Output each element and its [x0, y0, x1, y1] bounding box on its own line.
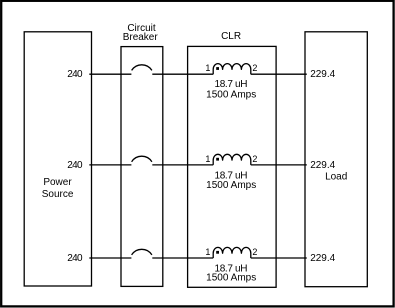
wire: source to breaker gap (phase C)	[89, 257, 131, 259]
svg-text:229.4: 229.4	[310, 160, 335, 171]
svg-text:Power: Power	[43, 177, 72, 188]
wire: source to breaker gap (phase A)	[89, 73, 131, 75]
label: Power Source	[42, 177, 74, 200]
polarity dot L-A	[216, 67, 219, 70]
label: Circuit Breaker	[123, 23, 159, 43]
svg-text:240: 240	[67, 160, 83, 171]
svg-text:1500 Amps: 1500 Amps	[206, 180, 256, 191]
circuit breaker box	[121, 47, 163, 287]
svg-text:1: 1	[205, 247, 210, 257]
power source box	[24, 32, 91, 286]
wire: source to breaker gap (phase B)	[89, 164, 131, 166]
wire: inductor to load (phase C)	[251, 257, 307, 259]
breaker contact arc CB-A	[132, 65, 152, 71]
svg-text:229.4: 229.4	[310, 69, 335, 80]
wire: inductor to load (phase B)	[251, 164, 307, 166]
svg-text:2: 2	[252, 63, 257, 73]
breaker contact arc CB-C	[132, 249, 152, 255]
svg-text:240: 240	[67, 253, 83, 264]
svg-text:Load: Load	[325, 172, 347, 183]
svg-text:2: 2	[252, 154, 257, 164]
inductor coil L-C	[213, 247, 251, 258]
svg-text:Source: Source	[42, 189, 74, 200]
svg-text:2: 2	[252, 247, 257, 257]
svg-text:229.4: 229.4	[310, 253, 335, 264]
svg-text:240: 240	[67, 69, 83, 80]
svg-text:CLR: CLR	[221, 31, 241, 42]
inductor coil L-B	[213, 154, 251, 165]
wire: breaker to inductor (phase A)	[152, 73, 213, 75]
svg-text:1: 1	[205, 63, 210, 73]
svg-text:1: 1	[205, 154, 210, 164]
wire: inductor to load (phase A)	[251, 73, 307, 75]
svg-text:18.7 uH: 18.7 uH	[215, 79, 248, 90]
wire: breaker to inductor (phase C)	[152, 257, 213, 259]
breaker contact arc CB-B	[132, 156, 152, 162]
svg-text:Breaker: Breaker	[123, 32, 159, 43]
svg-text:1500 Amps: 1500 Amps	[206, 273, 256, 284]
polarity dot L-B	[216, 158, 219, 161]
load box	[305, 32, 367, 287]
polarity dot L-C	[216, 251, 219, 254]
CLR box	[188, 46, 277, 287]
inductor coil L-A	[213, 64, 251, 75]
wire: breaker to inductor (phase B)	[152, 164, 213, 166]
svg-text:1500 Amps: 1500 Amps	[206, 90, 256, 101]
